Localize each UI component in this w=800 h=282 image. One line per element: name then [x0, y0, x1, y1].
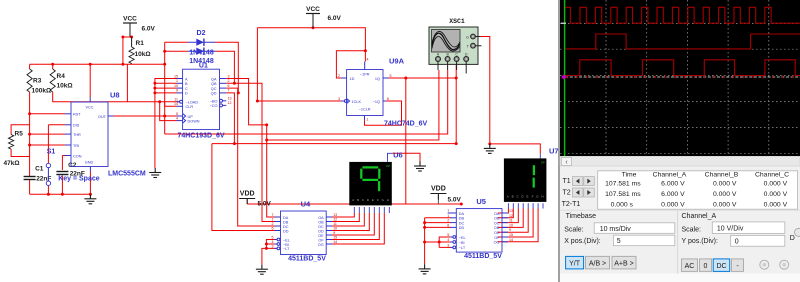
wire U4 outputs to U6 display fan — [332, 213, 355, 217]
waveform channel B medium square — [565, 34, 800, 49]
grid lines — [560, 0, 800, 156]
svg-text:UP: UP — [188, 115, 194, 119]
resistor R1 — [129, 47, 134, 64]
svg-text:OC: OC — [318, 225, 324, 229]
wire DIS pin to switch S1 — [48, 124, 65, 126]
svg-text:4: 4 — [447, 238, 449, 242]
button DC — [713, 259, 730, 272]
svg-text:C1: C1 — [35, 166, 44, 173]
svg-text:~LT: ~LT — [459, 246, 466, 250]
svg-text:6: 6 — [228, 84, 230, 88]
svg-text:107.581 ms: 107.581 ms — [605, 181, 641, 188]
svg-text:5: 5 — [390, 74, 392, 78]
svg-text:11: 11 — [174, 98, 178, 102]
svg-text:11: 11 — [333, 222, 337, 226]
svg-text:2: 2 — [272, 222, 274, 226]
wire counter QD to L3 — [226, 93, 234, 144]
wire ground bus to counter data inputs — [155, 79, 177, 169]
svg-text:4511BD_5V: 4511BD_5V — [288, 256, 326, 263]
svg-text:15: 15 — [174, 74, 178, 78]
svg-text:T2: T2 — [563, 190, 571, 197]
svg-text:3: 3 — [272, 244, 274, 248]
svg-text:X pos.(Div):: X pos.(Div): — [564, 238, 601, 245]
svg-text:U9A: U9A — [389, 57, 405, 66]
ground above U7 — [484, 144, 496, 154]
wire U5 DA long stub — [448, 212, 457, 214]
wire scope terminal leads — [438, 62, 466, 74]
svg-text:OF: OF — [494, 236, 500, 240]
svg-text:Y pos.(Div):: Y pos.(Div): — [682, 238, 718, 245]
svg-text:7: 7 — [272, 213, 274, 217]
wire scope ground terminal to circuit ground — [480, 37, 490, 144]
svg-text:Y/T: Y/T — [569, 261, 581, 268]
svg-text:0.000 V: 0.000 V — [713, 201, 737, 208]
svg-text:12: 12 — [333, 218, 337, 222]
svg-text:5.0V: 5.0V — [258, 201, 272, 208]
svg-text:14: 14 — [509, 238, 513, 242]
svg-text:0: 0 — [704, 263, 708, 270]
svg-text:6: 6 — [387, 97, 389, 101]
svg-text:VCC: VCC — [306, 6, 320, 13]
svg-text:F: F — [532, 195, 534, 199]
svg-text:4: 4 — [272, 240, 274, 244]
svg-text:100kΩ: 100kΩ — [32, 88, 52, 95]
svg-text:OA: OA — [494, 212, 500, 216]
svg-text:E: E — [372, 198, 374, 202]
svg-text:DC: DC — [716, 263, 726, 270]
wire H1 from R4 bottom — [53, 92, 128, 102]
wire V165 diode node down through dot2 — [164, 42, 166, 134]
wire R5 bottom lead — [11, 149, 30, 156]
wire S1 top lead — [47, 125, 49, 163]
wire VDD1 stem lead — [246, 199, 248, 204]
svg-text:VDD: VDD — [240, 191, 255, 198]
ground right of U6 — [414, 162, 426, 172]
svg-text:~CO: ~CO — [210, 104, 218, 108]
svg-text:Channel_A: Channel_A — [653, 172, 687, 179]
wire counter QB down to U4 DB — [226, 83, 274, 221]
svg-text:OD: OD — [494, 226, 500, 230]
wire U5 blanking pins group — [439, 237, 451, 247]
svg-text:1D: 1D — [350, 77, 355, 81]
svg-text:1Q: 1Q — [375, 77, 380, 81]
ground mid left — [149, 168, 161, 178]
radio knobs — [760, 260, 769, 269]
svg-text:3: 3 — [338, 97, 340, 101]
svg-text:Key = Space: Key = Space — [58, 176, 100, 183]
svg-text:9: 9 — [333, 231, 335, 235]
svg-text:DIS: DIS — [73, 124, 80, 128]
svg-text:AC: AC — [685, 263, 695, 270]
svg-text:OA: OA — [318, 216, 324, 220]
svg-text:Channel_C: Channel_C — [755, 172, 789, 179]
svg-text:OG: OG — [318, 243, 324, 247]
wire R1 bottom to LOAD node H1 — [131, 63, 133, 66]
wire R3 top lead — [29, 64, 31, 69]
svg-text:12: 12 — [509, 214, 513, 218]
wire U9A Q output to scope C and U5 DA — [389, 77, 457, 79]
wire dot1 to DOWN pin — [160, 102, 177, 121]
svg-text:F: F — [377, 198, 379, 202]
svg-text:0.000 s: 0.000 s — [611, 201, 634, 208]
svg-text:5: 5 — [272, 236, 274, 240]
wire U9A preset branch to 1D — [336, 51, 365, 78]
svg-text:14: 14 — [333, 240, 337, 244]
svg-text:B: B — [512, 195, 514, 199]
decoder U5 4511BD_5V — [456, 209, 502, 253]
svg-text:15: 15 — [509, 233, 513, 237]
svg-text:R4: R4 — [57, 73, 66, 80]
svg-text:74HC193D_6V: 74HC193D_6V — [177, 133, 224, 140]
svg-text:6.000 V: 6.000 V — [661, 181, 685, 188]
svg-text:THR: THR — [73, 133, 81, 137]
svg-text:0.000 V: 0.000 V — [713, 181, 737, 188]
wire scope-B run W_B — [267, 70, 439, 140]
svg-text:U7: U7 — [549, 147, 559, 156]
svg-text:U8: U8 — [110, 91, 120, 100]
wire scope-A long run W_A — [165, 70, 448, 134]
svg-text:6: 6 — [272, 227, 274, 231]
svg-text:5: 5 — [617, 238, 621, 245]
resistor R3 — [27, 69, 32, 92]
svg-text:0.000 V: 0.000 V — [713, 191, 737, 198]
svg-text:0.000 V: 0.000 V — [764, 191, 788, 198]
svg-text:~BI: ~BI — [283, 243, 289, 247]
wire L3 long run — [212, 143, 456, 145]
waveform channel A fast square — [565, 7, 800, 23]
display U6 seven segment showing 9 — [349, 162, 392, 206]
svg-text:0.000 V: 0.000 V — [661, 201, 685, 208]
svg-text:9: 9 — [176, 89, 178, 93]
flip-flop U9A 74HC74D_6V — [347, 70, 383, 116]
wire VCC2 rail to U9A preset — [257, 28, 365, 62]
svg-text:7: 7 — [228, 89, 230, 93]
svg-text:U6: U6 — [393, 151, 403, 160]
wire VCC rail top-left — [30, 63, 166, 65]
wire diode lower row — [165, 50, 188, 52]
svg-text:3: 3 — [228, 74, 230, 78]
svg-text:15: 15 — [333, 236, 337, 240]
svg-text:10: 10 — [174, 84, 178, 88]
wire counter QA to down-bus — [226, 79, 266, 125]
svg-text:R5: R5 — [15, 131, 24, 138]
svg-text:OE: OE — [494, 231, 500, 235]
svg-text:10 ms/Div: 10 ms/Div — [600, 226, 632, 233]
wire 555 OUT to counter UP pin — [113, 115, 177, 117]
svg-text:6.000 V: 6.000 V — [661, 191, 685, 198]
svg-text:0.000 V: 0.000 V — [764, 201, 788, 208]
svg-text:A/B >: A/B > — [589, 261, 606, 268]
svg-text:7: 7 — [447, 209, 449, 213]
svg-text:6.0V: 6.0V — [328, 15, 342, 22]
svg-text:OD: OD — [318, 229, 324, 233]
svg-text:VDD: VDD — [431, 186, 446, 193]
readout table — [598, 171, 798, 209]
svg-text:OG: OG — [494, 241, 500, 245]
trace position markers — [561, 23, 566, 24]
button 0 — [700, 259, 712, 272]
button AC — [682, 259, 698, 272]
svg-text:~LOAD: ~LOAD — [186, 101, 199, 105]
svg-text:1: 1 — [176, 79, 178, 83]
svg-text:T1: T1 — [563, 178, 571, 185]
svg-text:VCC: VCC — [85, 106, 93, 110]
svg-text:LMC555CM: LMC555CM — [108, 171, 146, 178]
svg-text:DD: DD — [283, 229, 289, 233]
wire bottom ground rail — [29, 179, 31, 194]
ground under 555 — [84, 194, 96, 204]
svg-text:10kΩ: 10kΩ — [57, 83, 73, 90]
svg-text:B: B — [357, 198, 359, 202]
svg-text:10: 10 — [509, 223, 513, 227]
section divider — [677, 211, 679, 282]
svg-text:14: 14 — [174, 102, 178, 106]
svg-text:6: 6 — [447, 223, 449, 227]
svg-text:10 V/Div: 10 V/Div — [717, 226, 744, 233]
wire VCC symbol stem branch — [123, 36, 132, 38]
svg-text:11: 11 — [509, 219, 513, 223]
svg-text:D2: D2 — [197, 30, 206, 37]
svg-text:4: 4 — [367, 58, 369, 62]
wire ground node to U7 top pin — [490, 144, 541, 154]
svg-text:C2: C2 — [68, 162, 77, 169]
svg-text:OB: OB — [318, 220, 324, 224]
svg-text:R1: R1 — [136, 40, 145, 47]
svg-text:~LT: ~LT — [283, 247, 290, 251]
svg-text:Scale:: Scale: — [564, 227, 584, 234]
svg-text:0.000 V: 0.000 V — [764, 181, 788, 188]
button A+B — [612, 256, 636, 269]
svg-text:R3: R3 — [33, 78, 42, 85]
svg-text:5.0V: 5.0V — [448, 197, 462, 204]
wire U5 outputs to U7 display fan — [498, 209, 509, 214]
svg-text:DOWN: DOWN — [188, 119, 200, 123]
svg-text:C: C — [185, 87, 188, 91]
wire counter QC down to U4 DC — [226, 88, 274, 226]
svg-text:12: 12 — [228, 101, 232, 105]
svg-text:QD: QD — [211, 92, 217, 96]
svg-text:10kΩ: 10kΩ — [135, 51, 151, 58]
svg-text:1: 1 — [447, 214, 449, 218]
capacitor C1 — [24, 176, 36, 178]
svg-text:~1Q: ~1Q — [373, 100, 380, 104]
svg-text:47kΩ: 47kΩ — [4, 160, 20, 167]
waveform channel D axis with ticks — [565, 76, 800, 78]
svg-text:13: 13 — [333, 213, 337, 217]
wire Q down to VDD row wire — [405, 78, 407, 204]
svg-text:QB: QB — [211, 82, 217, 86]
svg-text:G: G — [466, 36, 469, 40]
svg-text:H: H — [387, 198, 389, 202]
svg-text:~1CLR: ~1CLR — [359, 108, 371, 112]
svg-text:CLR: CLR — [186, 105, 194, 109]
svg-text:VCC: VCC — [123, 16, 137, 23]
T1 arrow buttons — [572, 177, 583, 186]
wire CLR branch — [165, 102, 177, 107]
svg-text:Scale:: Scale: — [682, 227, 702, 234]
svg-text:OF: OF — [318, 238, 324, 242]
svg-text:OUT: OUT — [98, 115, 107, 119]
svg-text:2: 2 — [228, 79, 230, 83]
svg-text:OE: OE — [318, 234, 324, 238]
svg-text:U5: U5 — [476, 197, 486, 206]
svg-text:QA: QA — [211, 77, 217, 81]
svg-text:DP: DP — [541, 161, 545, 165]
node junction dots on VCC rail — [51, 63, 54, 66]
wire diode D2 upper row — [165, 41, 188, 43]
oscilloscope panel background — [558, 0, 800, 282]
svg-text:9: 9 — [509, 228, 511, 232]
svg-text:DC: DC — [283, 225, 289, 229]
wire R4 top lead — [52, 64, 54, 69]
node dot2 on OUT wire — [163, 115, 166, 118]
node dot1 LOAD/DOWN junction — [158, 100, 161, 103]
svg-text:13: 13 — [509, 209, 513, 213]
svg-text:4511BD_5V: 4511BD_5V — [464, 253, 502, 260]
svg-text:3: 3 — [447, 243, 449, 247]
svg-text:E: E — [526, 195, 528, 199]
button A/B — [586, 256, 610, 269]
svg-text:OB: OB — [494, 217, 500, 221]
svg-text:QC: QC — [211, 87, 217, 91]
wire U9A clear loop to inverted Q — [365, 101, 402, 125]
svg-text:S1: S1 — [47, 149, 56, 156]
svg-text:5: 5 — [447, 233, 449, 237]
wire 555 pin rows to left node column V30 — [29, 92, 31, 177]
svg-text:~1PR: ~1PR — [360, 73, 370, 77]
screen scrollbar — [560, 156, 800, 167]
wire U5 data pins tie to ground bus — [424, 218, 426, 265]
svg-text:A: A — [352, 198, 354, 202]
svg-text:DA: DA — [459, 212, 465, 216]
ground under U5 — [419, 264, 431, 274]
resistor R5 — [9, 135, 14, 150]
svg-text:RST: RST — [73, 113, 81, 117]
ground under U4 — [256, 265, 268, 275]
display U7 seven segment showing 1 — [504, 158, 547, 202]
wire CON pin to C2 — [62, 155, 65, 157]
wire VDD2 stem lead — [437, 195, 439, 205]
counter U1 74HC193D_6V — [183, 69, 220, 129]
svg-text:D: D — [790, 235, 795, 242]
svg-text:DP: DP — [386, 164, 390, 168]
wire U6 top pin to ground — [388, 153, 393, 162]
svg-text:D: D — [185, 92, 188, 96]
svg-text:5: 5 — [176, 112, 178, 116]
decoder U4 4511BD_5V — [281, 211, 327, 255]
svg-text:DB: DB — [283, 220, 289, 224]
svg-text:Timebase: Timebase — [566, 213, 597, 220]
svg-text:1: 1 — [367, 118, 369, 122]
svg-text:U4: U4 — [301, 200, 311, 209]
svg-text:OC: OC — [494, 221, 500, 225]
waveform channel C slow square — [565, 60, 800, 76]
svg-text:Time: Time — [622, 172, 637, 179]
svg-text:107.581 ms: 107.581 ms — [605, 191, 641, 198]
svg-text:T: T — [467, 45, 469, 49]
svg-text:XSC1: XSC1 — [449, 18, 465, 25]
svg-text:CON: CON — [73, 154, 82, 158]
svg-text:Channel_A: Channel_A — [682, 213, 717, 220]
capacitor C2 — [56, 171, 68, 173]
svg-text:~BO: ~BO — [210, 100, 218, 104]
svg-text:1CLK: 1CLK — [352, 100, 362, 104]
svg-text:6.0V: 6.0V — [142, 26, 156, 33]
cursor T1 green line — [564, 0, 565, 156]
button minus — [732, 259, 744, 272]
resistor R4 — [50, 69, 55, 92]
svg-text:GND: GND — [85, 161, 94, 165]
svg-text:U1: U1 — [199, 63, 208, 70]
svg-text:~EL: ~EL — [283, 238, 290, 242]
wire U4 blanking pins to ground — [266, 240, 276, 249]
oscilloscope screen — [560, 0, 800, 156]
svg-text:A: A — [507, 195, 509, 199]
svg-text:DB: DB — [459, 217, 465, 221]
svg-text:Channel_B: Channel_B — [705, 172, 739, 179]
button Y/T — [566, 256, 584, 269]
svg-text:2: 2 — [338, 74, 340, 78]
svg-text:T2-T1: T2-T1 — [562, 201, 581, 208]
svg-text:10: 10 — [333, 227, 337, 231]
svg-text:2: 2 — [447, 219, 449, 223]
svg-text:DA: DA — [283, 216, 289, 220]
svg-text:A+B >: A+B > — [614, 261, 633, 268]
wire R5 top lead to DIS row — [11, 125, 30, 135]
wire 555 VCC pin to rail — [89, 64, 91, 97]
svg-text:DD: DD — [459, 226, 465, 230]
svg-text:H: H — [541, 195, 543, 199]
wire counter CLK node to U9A clock — [257, 28, 341, 101]
svg-text:1: 1 — [272, 218, 274, 222]
T2 arrow buttons — [572, 188, 583, 197]
svg-text:TRI: TRI — [73, 144, 79, 148]
wire VDD row horizontal — [247, 203, 461, 205]
svg-text:4: 4 — [176, 116, 178, 120]
svg-text:~EL: ~EL — [459, 236, 466, 240]
svg-text:13: 13 — [228, 97, 232, 101]
svg-text:0: 0 — [735, 238, 739, 245]
wire QA bus down to U4 DA — [267, 125, 275, 217]
diode D1 — [196, 48, 204, 55]
svg-text:DC: DC — [459, 221, 465, 225]
svg-text:74HC74D_6V: 74HC74D_6V — [384, 121, 428, 128]
bottom strip — [560, 274, 800, 282]
svg-text:~BI: ~BI — [459, 241, 465, 245]
op-amp U8 LMC555CM 555 timer — [71, 102, 108, 167]
